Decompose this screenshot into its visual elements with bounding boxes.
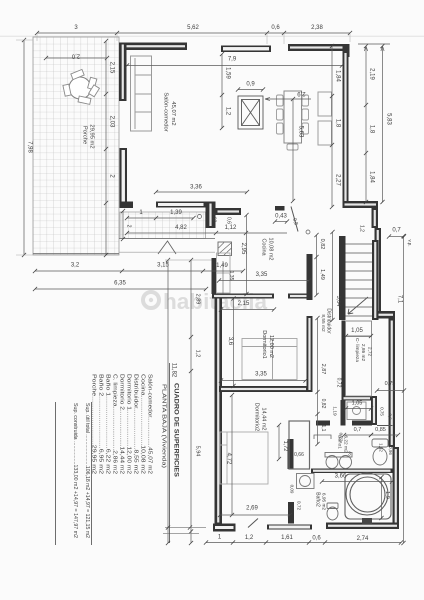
svg-text:1,59: 1,59 [225, 67, 231, 79]
wall top-right corner [288, 44, 350, 51]
dim right chain1 1,84 / 1,8 / 2,27 [331, 46, 333, 207]
wall divider bano1/bano2 [311, 469, 393, 474]
svg-text:5,62: 5,62 [187, 25, 199, 31]
svg-text:2: 2 [126, 225, 132, 228]
c.limpieza shelf box [346, 321, 372, 396]
svg-text:29,95 m2: 29,95 m2 [89, 124, 95, 148]
svg-text:1,39: 1,39 [170, 210, 182, 216]
sofa salon west [131, 56, 152, 131]
svg-text:0,72: 0,72 [336, 378, 342, 388]
svg-text:6,22 m2: 6,22 m2 [343, 435, 349, 453]
dim porch 2,0 flipped [46, 57, 107, 59]
svg-text:1,61: 1,61 [281, 535, 293, 541]
dim leader dining [265, 97, 311, 100]
svg-text:1,72: 1,72 [282, 441, 288, 452]
dim stairs chain 0,82 / 1,49 [316, 235, 318, 295]
svg-text:7,9: 7,9 [228, 57, 237, 63]
armchair east 1 [318, 92, 332, 116]
svg-text:1,12: 1,12 [225, 225, 237, 231]
dim 0,7 top-right [389, 236, 404, 238]
dorm1 bed 1 [242, 339, 273, 380]
dorm2 double bed [220, 432, 268, 484]
svg-text:Dormitorio 2..................: Dormitorio 2....................14,44 m2 [119, 374, 125, 474]
svg-text:0,43: 0,43 [275, 214, 287, 220]
wall east salon (window strip) [343, 51, 349, 208]
dim chain 2,89 / 1,2 / 5,94 [190, 260, 192, 543]
svg-text:3,6: 3,6 [227, 337, 233, 346]
dim chain fireplace 1,59 / 1,2 [221, 54, 223, 128]
svg-text:1,05: 1,05 [352, 401, 363, 407]
armchair east 2 [318, 121, 332, 145]
wall bathroom south exterior [326, 523, 399, 530]
svg-text:0,85: 0,85 [375, 427, 386, 433]
porch round table [69, 77, 91, 99]
svg-text:5,83: 5,83 [386, 113, 392, 125]
svg-text:1,84: 1,84 [335, 70, 341, 82]
stairs direction arrow [348, 297, 368, 314]
dim 0,75 east jog [377, 390, 404, 392]
svg-text:1,52: 1,52 [379, 443, 384, 452]
svg-text:0,75: 0,75 [385, 381, 396, 387]
svg-text:Baño2: Baño2 [315, 492, 321, 507]
dim left extension guides [16, 40, 33, 255]
dim bano2 1,9 [381, 477, 383, 518]
svg-text:Salón-comedor: Salón-comedor [163, 92, 169, 131]
fireplace [238, 96, 263, 129]
dim dorm2 2,69 [220, 514, 290, 516]
svg-text:0,72: 0,72 [296, 501, 302, 511]
window salon south [156, 202, 206, 208]
door knob circle stairs [306, 230, 310, 234]
dim right chain2 2,19 / 1,8 / 1,84 [365, 46, 367, 202]
svg-text:Sup. construida ..............: Sup. construida ................133,00 m… [72, 403, 78, 538]
dim 11,82 overall [167, 260, 169, 543]
wall kitchen east [307, 254, 313, 300]
bano1 toilet [372, 439, 388, 465]
svg-text:3,36: 3,36 [190, 185, 202, 191]
svg-text:2,03: 2,03 [109, 116, 115, 128]
svg-text:Sup. útil total ..............: Sup. útil total ......................10… [84, 403, 90, 538]
dim fireplace 0,9 [238, 89, 263, 91]
svg-text:0,09: 0,09 [290, 485, 295, 494]
svg-text:2,87: 2,87 [320, 364, 326, 375]
svg-text:Cocina........................: Cocina..........................10,08 m2 [140, 374, 146, 474]
wall divider dorm1/dorm2 [219, 386, 308, 392]
watermark habitaclia logo swirl [143, 292, 159, 308]
svg-text:CUADRO DE SUPERFICIES: CUADRO DE SUPERFICIES [173, 383, 180, 477]
wall bathroom east exterior [393, 447, 400, 529]
svg-text:1,05: 1,05 [351, 328, 363, 334]
dim right top guide arrows [358, 44, 390, 51]
dorm2 door leaf [248, 519, 258, 528]
wall west exterior lower section [215, 294, 223, 525]
dim dorm2 4,72 [231, 395, 233, 515]
svg-text:4,82: 4,82 [175, 225, 187, 231]
svg-text:2,15: 2,15 [109, 62, 115, 74]
wall kitchen north stub [216, 208, 242, 215]
porch floor grid [33, 37, 119, 255]
wall dorm2 east lower [288, 502, 294, 524]
dim chain 3,2 / 3,15 / 1,49 [35, 270, 243, 272]
svg-text:2,19: 2,19 [369, 68, 375, 80]
svg-text:2,74: 2,74 [357, 536, 369, 542]
stairs treads [346, 244, 373, 316]
entry threshold line [119, 251, 215, 253]
dim bottom partial left [163, 528, 206, 534]
svg-text:1,8: 1,8 [335, 119, 341, 128]
dim top overall line 3 / 5,62 / 0,6 / 2,38 [37, 32, 350, 34]
dining chair bottom [287, 144, 298, 150]
dim bano2 3,66 [322, 481, 392, 483]
dim bano1 0,85 [371, 434, 398, 436]
dining chairs right [302, 95, 309, 134]
svg-text:0,66: 0,66 [294, 452, 304, 458]
dorm1 bed 2 [273, 339, 298, 380]
svg-text:1,2: 1,2 [245, 535, 254, 541]
svg-text:0,6: 0,6 [226, 217, 232, 224]
svg-text:0,6: 0,6 [388, 413, 393, 420]
wall salon west upper + top-left corner [119, 43, 187, 51]
wall dorm2 closet west [288, 439, 294, 469]
bano1 shower basin [347, 402, 366, 420]
svg-text:Dormitorio1: Dormitorio1 [261, 330, 267, 358]
kitchen counter along west wall [217, 253, 231, 293]
svg-text:5,63: 5,63 [298, 126, 304, 138]
kitchen sink counter hatched [218, 242, 232, 256]
dim 6,35 [35, 288, 206, 290]
wall bano1 middle vertical [371, 396, 377, 425]
dim bano1 1,05 [346, 408, 371, 410]
svg-text:Distribuidor..................: Distribuidor......................8,55 m… [133, 374, 139, 474]
wall east exterior middle [375, 228, 382, 314]
wall jog at salon south-east / entry [206, 202, 216, 229]
svg-text:0,7: 0,7 [392, 228, 401, 234]
window dorm2 south [267, 525, 312, 530]
stairs right rail [372, 240, 379, 320]
dining chairs left [277, 95, 284, 134]
bano1 bidet pair [325, 453, 352, 469]
dim hall chain 2,87 / 0,82 / 1,1 [317, 318, 319, 444]
wall south-east jog of salon [343, 201, 379, 208]
svg-text:Cocina: Cocina [261, 238, 267, 256]
dim top extension guides [37, 34, 350, 44]
svg-text:0,9: 0,9 [246, 82, 255, 88]
svg-text:Porche: Porche [82, 126, 88, 144]
table rule top under title [169, 363, 171, 543]
svg-text:5,94: 5,94 [195, 446, 201, 457]
svg-text:1,62: 1,62 [212, 213, 218, 223]
svg-text:2,38: 2,38 [311, 25, 323, 31]
svg-text:11,82: 11,82 [171, 363, 177, 378]
dim bano1 0,7 [344, 434, 371, 436]
svg-text:0,6: 0,6 [271, 25, 280, 31]
svg-text:6,95 m2: 6,95 m2 [321, 493, 327, 511]
wall east jog 2 [375, 311, 396, 319]
table rule above totals [91, 402, 93, 545]
svg-text:1,2: 1,2 [195, 350, 201, 358]
dim porch vertical chain 2,15 / 2,03 / 2 [105, 41, 107, 255]
svg-text:Baño 2........................: Baño 2...........................6,95 m2 [98, 374, 104, 474]
bano2 wc [327, 503, 338, 520]
wall bano1 west stub [341, 400, 346, 426]
svg-text:6,35: 6,35 [114, 281, 126, 287]
dim kitchen 0,43 [275, 221, 287, 223]
wall small bar near kitchen door [275, 206, 285, 211]
svg-text:0,75: 0,75 [380, 407, 385, 416]
dining table [284, 91, 302, 143]
dim salon 7,9 [127, 65, 342, 67]
svg-text:7,98: 7,98 [27, 141, 33, 153]
svg-text:Distribuidor: Distribuidor [326, 308, 332, 334]
wall bedrooms east [307, 316, 313, 392]
wall foot of west window [120, 202, 134, 209]
svg-text:4,72: 4,72 [226, 453, 232, 465]
dim salon south 3,36 [156, 191, 247, 193]
dorm2 closet [289, 421, 310, 469]
svg-text:v.p.: v.p. [408, 240, 413, 247]
svg-text:C. limpieza...................: C. limpieza........................2,86 … [112, 374, 118, 474]
svg-text:2,9: 2,9 [297, 90, 306, 96]
dim kitchen 2,95 [246, 215, 248, 294]
dim kitchen 3,35 [219, 280, 309, 282]
wall dormitorio1 north left [212, 294, 274, 299]
svg-text:0,6: 0,6 [312, 536, 321, 542]
svg-text:1,49: 1,49 [216, 263, 228, 269]
svg-text:1,2: 1,2 [225, 107, 231, 116]
svg-text:1,19: 1,19 [332, 406, 338, 416]
dim distribuidor 5,04 [332, 232, 334, 320]
svg-text:Dormitorio2: Dormitorio2 [254, 403, 260, 431]
svg-text:Salón-comedor.................: Salón-comedor.................45,07 m2 [147, 374, 153, 474]
svg-text:Dormitorio 1..................: Dormitorio 1....................12,00 m2 [126, 374, 132, 474]
svg-text:3,15: 3,15 [157, 263, 169, 269]
svg-text:0,82: 0,82 [320, 399, 326, 409]
svg-text:12,00 m2: 12,00 m2 [268, 335, 274, 358]
svg-text:Baño 1........................: Baño 1...........................6,22 m2 [105, 374, 111, 474]
svg-text:3,35: 3,35 [255, 372, 267, 378]
dim closet 1,72 [278, 425, 280, 459]
wall bano1 south left [316, 421, 330, 426]
svg-text:1,2: 1,2 [359, 225, 365, 232]
dim 4,82 / 1,12 [127, 232, 287, 234]
dim guide at kitchen north [165, 259, 212, 261]
svg-text:10,08 m2: 10,08 m2 [268, 238, 274, 261]
porch chair bottom-right [89, 85, 100, 97]
window salon north 1 [221, 46, 271, 53]
svg-text:3: 3 [348, 452, 351, 458]
svg-text:1,8: 1,8 [369, 125, 375, 134]
svg-text:3,35: 3,35 [256, 272, 268, 278]
wall toilet nook line [377, 425, 393, 427]
svg-text:0,7: 0,7 [354, 427, 362, 433]
porch chair top-left [71, 69, 84, 79]
wall kitchen west [212, 258, 217, 294]
paper faint top edge line [0, 35, 424, 37]
svg-text:14,44 m2: 14,44 m2 [261, 408, 267, 431]
svg-text:1,9: 1,9 [384, 491, 390, 499]
bano2 jacuzzi tub [345, 473, 391, 519]
door knob circle entry [198, 215, 202, 219]
dim dorm1 3,35 [221, 380, 306, 382]
svg-text:2,27: 2,27 [335, 174, 341, 186]
bano2 door bracket [314, 435, 331, 439]
svg-text:2,72: 2,72 [367, 347, 373, 357]
window salon west lower [120, 148, 128, 208]
bano2 washbasin [297, 474, 315, 489]
svg-text:C- limpieza: C- limpieza [354, 338, 360, 362]
svg-text:1,1: 1,1 [320, 425, 326, 432]
porch south edge line [33, 253, 119, 255]
dim c.limpieza 1,05 shelf [346, 335, 371, 337]
svg-text:3,2: 3,2 [71, 263, 80, 269]
svg-text:0,96: 0,96 [388, 446, 393, 455]
entry terrace bottom line [119, 238, 215, 240]
entrance door swing [158, 241, 176, 254]
svg-text:1,35: 1,35 [228, 271, 234, 281]
wall bano1 south right [352, 421, 372, 426]
porch chair left [63, 84, 71, 96]
dim left 7,98 [23, 40, 25, 255]
dim dorm1 2,15 [221, 309, 274, 311]
dim 5,63 vertical [292, 99, 294, 201]
svg-text:5,04: 5,04 [335, 296, 341, 307]
svg-text:3,66: 3,66 [335, 474, 347, 480]
svg-text:1,49: 1,49 [319, 269, 325, 280]
svg-text:Baño1: Baño1 [337, 435, 343, 449]
svg-text:2,0: 2,0 [71, 53, 80, 59]
wall dorm2 south corner [213, 524, 236, 532]
table rule bottom [55, 402, 57, 545]
svg-text:45,07 m2: 45,07 m2 [170, 101, 176, 125]
wall east exterior lower [389, 319, 396, 448]
porch chair right [88, 77, 97, 89]
svg-text:PLANTA BAJA (Vivienda): PLANTA BAJA (Vivienda) [161, 384, 167, 468]
wall c.limpieza west [342, 321, 346, 401]
svg-text:2,86 m2: 2,86 m2 [360, 344, 366, 362]
kitchen door leaf diagonal [291, 207, 298, 232]
dim dorm1 3,6 [233, 299, 235, 387]
svg-text:2,89: 2,89 [195, 294, 201, 305]
porch chair bottom [78, 96, 91, 104]
entry terrace grid [120, 212, 206, 239]
svg-text:2,95: 2,95 [240, 243, 246, 255]
dim far-right 7,1 chain [403, 236, 405, 543]
svg-text:0,82: 0,82 [319, 239, 325, 250]
svg-text:1,84: 1,84 [369, 171, 375, 183]
wall dormitorio1 north right [288, 294, 311, 299]
svg-text:2,15: 2,15 [238, 301, 250, 307]
dim entry strip height 2 [122, 211, 124, 239]
svg-text:2,69: 2,69 [246, 506, 258, 512]
wall c.limpieza south / bano1 north [342, 396, 373, 401]
stairs left rail [339, 236, 346, 320]
dim right chain3 5,83 [382, 46, 384, 202]
svg-text:7,1: 7,1 [397, 295, 403, 304]
svg-text:8,55 m2: 8,55 m2 [320, 314, 326, 332]
dim bottom row 1 / 1,2 / 1,61 / 0,6 / 2,74 [206, 542, 401, 544]
dim entry 1 / 1,39 [127, 217, 194, 219]
